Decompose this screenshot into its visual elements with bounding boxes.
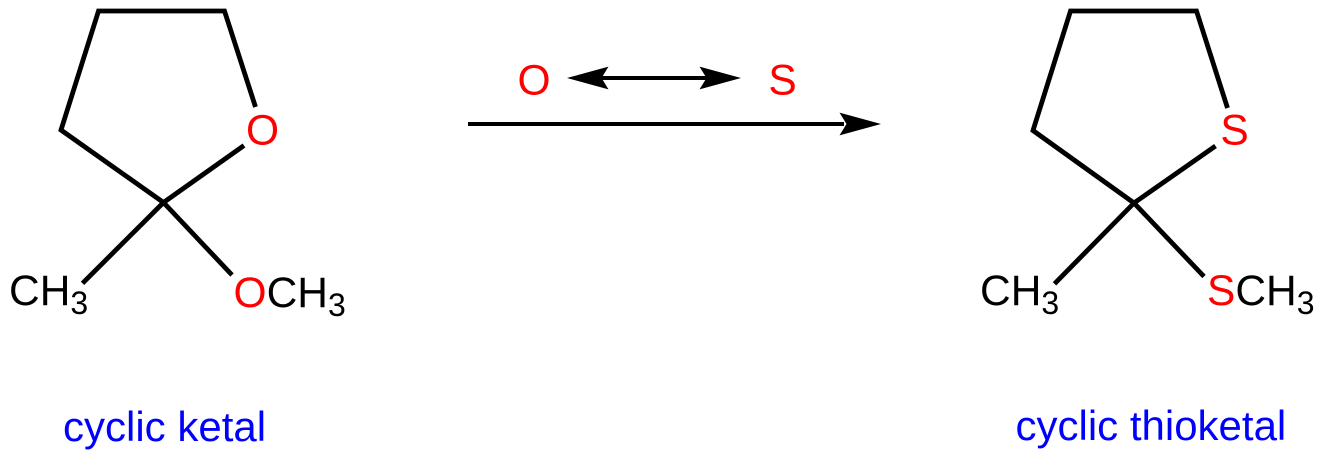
svg-text:O: O: [517, 58, 550, 105]
wire ring top and sides: [1033, 11, 1228, 203]
wire C2 to SCH3: [1134, 203, 1204, 277]
arrowhead right: [700, 67, 742, 90]
wire double-headed arrow shaft: [600, 76, 708, 80]
wire S to C2: [1134, 146, 1216, 203]
svg-text:cyclic thioketal: cyclic thioketal: [1016, 402, 1287, 449]
svg-text:S: S: [768, 58, 796, 105]
wire C2 to CH3: [1055, 203, 1135, 284]
arrowhead left: [567, 67, 609, 90]
wire reaction arrow shaft: [468, 122, 844, 126]
wire O to C2: [164, 146, 245, 203]
svg-text:O: O: [246, 108, 279, 155]
arrowhead reaction arrow: [840, 113, 882, 136]
wire ring top and sides: [61, 11, 256, 203]
wire C2 to CH3: [83, 203, 164, 284]
wire C2 to OCH3: [164, 203, 233, 276]
svg-text:S: S: [1220, 108, 1248, 155]
ring bonds C3-C4-C5 and C5-O side: [61, 11, 256, 283]
svg-text:cyclic ketal: cyclic ketal: [63, 403, 266, 450]
right molecule: 2-methyl-2-(methylthio)tetrahydrothiophene (cyclic thioketal): [1033, 11, 1228, 284]
